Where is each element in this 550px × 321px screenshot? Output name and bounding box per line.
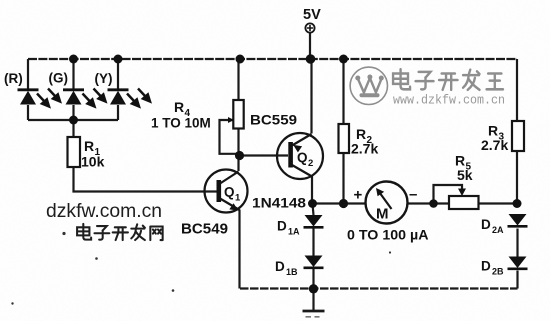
svg-text:(R): (R) [4,71,23,86]
svg-text:www.dzkfw.com.cn: www.dzkfw.com.cn [393,94,505,108]
svg-text:5k: 5k [457,167,473,183]
svg-text:2: 2 [308,158,313,169]
svg-text:5V: 5V [303,7,321,23]
svg-text:BC549: BC549 [181,222,228,238]
svg-text:1 TO 10M: 1 TO 10M [151,116,211,131]
svg-text:1: 1 [235,193,241,204]
svg-text:–: – [409,186,417,203]
svg-text:R: R [84,138,94,154]
svg-text:1N4148: 1N4148 [252,196,307,211]
svg-text:D: D [277,219,287,234]
svg-text:(G): (G) [49,71,69,86]
svg-text:(Y): (Y) [95,71,113,86]
svg-text:R: R [174,99,184,115]
svg-text:M: M [376,206,389,223]
svg-text:BC559: BC559 [250,112,297,128]
svg-text:2A: 2A [492,225,504,235]
svg-text:10k: 10k [81,154,105,170]
svg-text:D: D [481,259,491,274]
svg-text:D: D [275,259,285,274]
svg-text:2.7k: 2.7k [481,137,508,153]
svg-text:+: + [354,187,363,204]
svg-text:1A: 1A [288,227,300,237]
svg-text:D: D [481,217,491,232]
svg-text:Q: Q [297,150,308,165]
svg-text:dzkfw.com.cn: dzkfw.com.cn [46,200,162,222]
svg-text:2.7k: 2.7k [351,141,378,157]
svg-text:0 TO 100 µA: 0 TO 100 µA [347,228,429,243]
svg-text:Q: Q [224,185,235,200]
svg-text:1B: 1B [286,267,298,277]
svg-text:2B: 2B [492,267,504,277]
